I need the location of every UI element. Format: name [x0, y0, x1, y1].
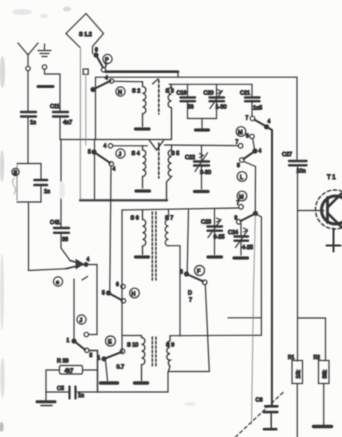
switch arm S1 [91, 76, 114, 92]
node e [53, 277, 62, 286]
svg-text:1n: 1n [30, 120, 36, 126]
svg-text:C23: C23 [201, 220, 211, 226]
capacitor C11 [50, 104, 72, 126]
coil S10 [127, 336, 145, 381]
svg-text:4: 4 [104, 144, 107, 150]
contact 6b [116, 282, 125, 289]
emitter tail [327, 229, 341, 252]
svg-text:4: 4 [87, 257, 90, 263]
wire left switch column [73, 279, 75, 340]
capacitor C23 (trimmer) [201, 209, 225, 255]
svg-text:R 39: R 39 [57, 359, 69, 365]
svg-text:M: M [238, 130, 243, 136]
svg-text:9: 9 [235, 216, 238, 222]
svg-text:1n5: 1n5 [253, 106, 262, 112]
svg-text:M: M [239, 195, 244, 201]
svg-text:C27: C27 [282, 152, 292, 158]
wire contact 6 down [253, 139, 255, 150]
svg-text:e: e [56, 280, 59, 286]
svg-text:4: 4 [259, 149, 262, 155]
capacitor C21 [240, 84, 262, 116]
gang coupling (dashed diagonal) [236, 393, 284, 437]
svg-text:S 6: S 6 [131, 216, 139, 222]
node E [106, 336, 116, 346]
wire C11 down [59, 118, 61, 140]
svg-text:5: 5 [88, 150, 91, 156]
wire long vertical from S4 contact [110, 166, 111, 292]
svg-text:1-30: 1-30 [216, 105, 227, 111]
svg-text:C24: C24 [228, 230, 238, 236]
ground C19/C20 [196, 128, 209, 131]
svg-text:C22: C22 [185, 155, 195, 161]
mixer box left edge [94, 140, 96, 200]
wire E arm to ground [106, 361, 108, 381]
svg-text:6-25: 6-25 [214, 235, 225, 241]
svg-text:1: 1 [67, 338, 70, 344]
core arrow tick [153, 79, 159, 84]
band switch S1.2 (diamond) [66, 14, 104, 54]
faint rotor shaft line (right) [252, 216, 256, 425]
svg-text:C41: C41 [50, 220, 60, 226]
switch contact 7 (right chain top) [246, 116, 255, 122]
wiper arrow (band switch rotor) [66, 257, 90, 269]
svg-text:4: 4 [113, 167, 116, 173]
svg-text:S 2: S 2 [132, 89, 140, 95]
capacitor C22 (trimmer) [185, 146, 211, 189]
svg-text:6: 6 [246, 134, 249, 140]
connector rect [83, 69, 88, 74]
wire C19/C20 join [188, 119, 217, 129]
antenna [18, 43, 38, 71]
label D7 [188, 291, 192, 304]
main HT rail (thick vertical) [267, 127, 273, 405]
svg-text:J: J [80, 318, 83, 324]
transformer core 2 (dashed) [158, 143, 160, 178]
svg-text:C20: C20 [204, 91, 214, 97]
node M [236, 127, 246, 137]
ground (E row) [101, 381, 118, 384]
svg-text:7: 7 [189, 298, 192, 304]
svg-text:D: D [188, 291, 192, 297]
svg-text:7: 7 [236, 140, 239, 146]
wiper V (S4 row) [150, 141, 164, 151]
switch arm S4 [88, 150, 116, 173]
svg-text:4: 4 [268, 119, 271, 125]
ground C22 [195, 190, 209, 193]
resistor R2 39k [314, 355, 330, 425]
contact 4 row2 [104, 144, 113, 150]
wire row2 [113, 144, 238, 147]
wire ground to C11 [45, 70, 61, 111]
svg-text:4-25: 4-25 [242, 245, 253, 251]
mixer box bottom (thick) [80, 199, 167, 201]
resistor R1 10k [288, 355, 303, 437]
svg-text:1: 1 [98, 356, 101, 362]
node M2 [237, 191, 247, 201]
wire bus drop [177, 72, 179, 78]
top bus (thick) [106, 70, 179, 73]
switch arm (left, lower) [67, 338, 93, 359]
wire C41 to wiper [61, 234, 70, 261]
svg-text:7: 7 [246, 116, 249, 122]
wire C1 to tank [27, 118, 29, 164]
svg-text:4n7: 4n7 [63, 120, 72, 126]
capacitor C5 [46, 386, 168, 399]
svg-text:S 4: S 4 [132, 151, 140, 157]
svg-text:5: 5 [90, 353, 93, 359]
svg-text:8: 8 [237, 163, 240, 169]
contact on x122 bottom [120, 349, 125, 354]
ground S2 [136, 127, 150, 130]
wire contact to bottom rail [205, 285, 209, 372]
scan smudges [0, 7, 196, 433]
switch arm F row [180, 270, 207, 285]
IF core (double dashed) [152, 212, 156, 280]
resistor R39 4k7 [46, 359, 98, 375]
coil S6 [131, 210, 146, 255]
contact on vertical [121, 299, 125, 303]
node N [116, 87, 125, 96]
svg-text:J: J [119, 152, 122, 158]
wire S9 top (long, to rotor column) [170, 334, 261, 336]
wire contact to coil S2 [114, 80, 143, 82]
svg-text:S 5: S 5 [171, 151, 179, 157]
wire branch to R2 [298, 318, 326, 361]
wire S3 top to padder row [170, 83, 253, 85]
variable capacitor C6 [256, 398, 278, 430]
IF core 2 (double dashed) [152, 337, 156, 367]
wire wiper to contact loop [88, 265, 98, 335]
contact tick [82, 277, 88, 281]
ground S10 [135, 381, 148, 384]
coil S4 [132, 146, 146, 188]
svg-text:H: H [132, 292, 136, 298]
node contact [84, 332, 88, 336]
svg-text:4k7: 4k7 [65, 369, 74, 375]
coil S3 [166, 84, 174, 139]
ground S6 [136, 255, 149, 258]
ground R2 [314, 425, 332, 428]
wire main bus y139 junction down to C41 [60, 140, 62, 228]
svg-text:F: F [197, 269, 201, 275]
switch arm H row [102, 291, 122, 301]
svg-text:1n: 1n [44, 189, 50, 195]
wire tank down to bottom bus [29, 202, 67, 271]
svg-text:7: 7 [237, 201, 240, 207]
svg-text:S 1.2: S 1.2 [79, 32, 92, 38]
IF box wire (y210) [122, 208, 239, 210]
capacitor C19 [177, 84, 196, 118]
wire contact 8 down right column [244, 162, 256, 213]
node J (circle) [77, 315, 86, 324]
wire spur y317 [228, 317, 261, 319]
wire base [298, 210, 325, 212]
capacitor C20 (trimmer) [204, 84, 227, 118]
svg-text:C5: C5 [57, 386, 64, 392]
faint vertical 2 [85, 75, 87, 146]
ground C23 [208, 255, 222, 258]
svg-text:E: E [108, 340, 112, 346]
svg-text:56: 56 [188, 105, 194, 111]
transformer core (dashed) [158, 80, 160, 114]
coil S10 section top [122, 335, 142, 337]
svg-text:P: P [105, 58, 109, 64]
tuned tank L/C (coil S with core, cap 1n) [12, 164, 50, 203]
switch arm to node 4 [255, 119, 271, 129]
svg-text:N: N [118, 90, 122, 96]
ground (top, chassis) [38, 44, 51, 69]
wire bottom right riser [168, 372, 209, 393]
svg-text:8: 8 [180, 270, 183, 276]
svg-text:5: 5 [102, 291, 105, 297]
coil S7 [165, 210, 180, 336]
contact 7 (row2 right end) [236, 140, 243, 149]
coil S5 [167, 145, 180, 200]
svg-text:39k: 39k [322, 370, 328, 379]
ground C24 [234, 256, 248, 259]
wire S7 right leg [187, 210, 188, 272]
transistor T1 [316, 175, 342, 229]
faint vertical from diamond [79, 48, 81, 200]
wire antenna to C1 [27, 71, 29, 111]
node L [237, 172, 247, 182]
svg-text:L: L [240, 175, 243, 181]
node J2 [116, 149, 125, 158]
node H [130, 288, 140, 298]
switch arm (dot 213) [235, 212, 258, 225]
contact 7b [237, 201, 244, 210]
switch arm E row [98, 352, 123, 362]
chassis bar [38, 85, 53, 88]
node F [195, 266, 205, 276]
capacitor C27 [282, 77, 307, 361]
ground S4 [136, 189, 150, 192]
contact 6 [246, 134, 254, 140]
svg-text:1n: 1n [78, 393, 84, 399]
coil S9 [166, 336, 174, 372]
capacitor C24 (trimmer) [228, 224, 253, 255]
svg-text:8: 8 [95, 48, 98, 54]
svg-text:C19: C19 [177, 91, 187, 97]
svg-text:10k: 10k [296, 370, 302, 379]
IF transformer section verticals [121, 210, 123, 351]
svg-text:S 10: S 10 [127, 343, 138, 349]
capacitor C1 [21, 112, 36, 126]
coil S2 [132, 82, 146, 127]
svg-text:C21: C21 [240, 91, 250, 97]
svg-text:6: 6 [116, 282, 119, 288]
svg-text:T 1: T 1 [327, 175, 336, 181]
switch arm node 4b [237, 149, 262, 170]
RF box outline [60, 77, 297, 139]
svg-text:C6: C6 [256, 398, 263, 404]
capacitor C41 [50, 220, 69, 243]
svg-text:4: 4 [105, 76, 108, 82]
ground (bottom left) [37, 392, 55, 406]
svg-text:0.7: 0.7 [117, 365, 125, 371]
node P [103, 54, 112, 63]
wire arm to R39 column [89, 351, 98, 393]
switch arm S1.2 to bus (node P) [94, 48, 108, 73]
wire R39 left down [45, 370, 47, 392]
wire rotor output down [255, 214, 261, 336]
svg-text:38: 38 [62, 237, 68, 243]
svg-text:C11: C11 [50, 104, 60, 110]
